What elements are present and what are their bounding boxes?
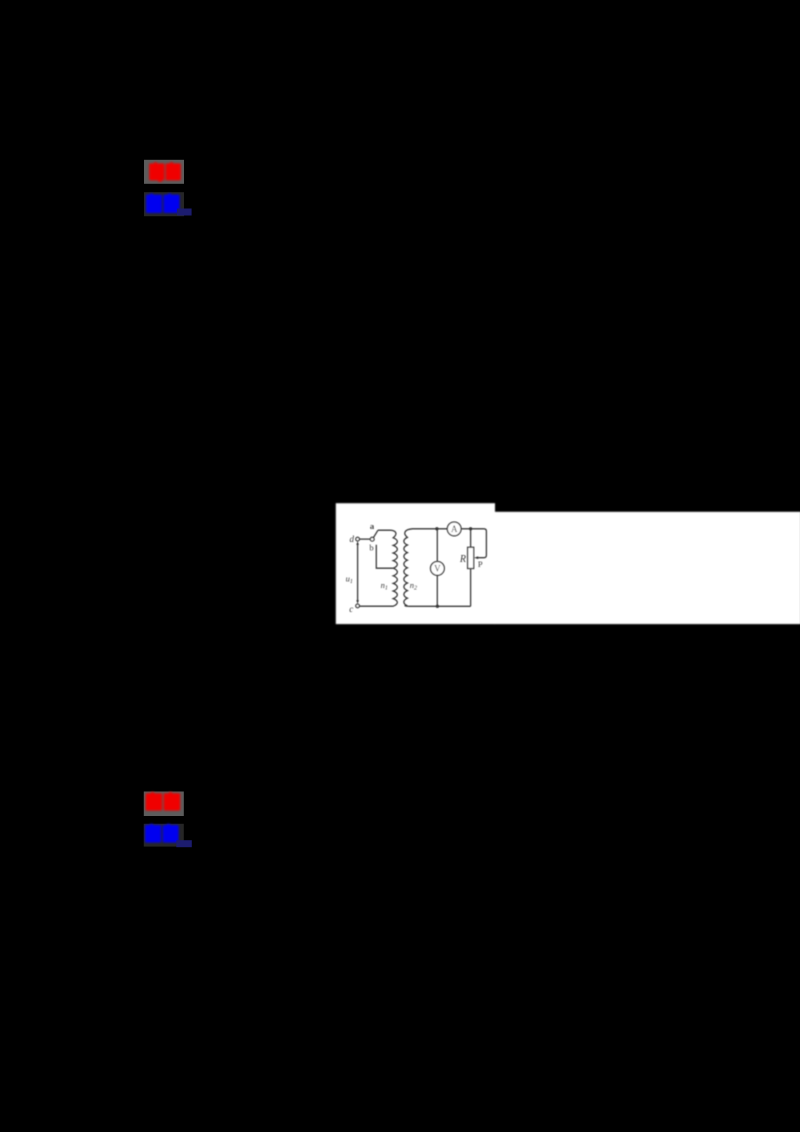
junction node right <box>469 527 472 530</box>
svg-text:P: P <box>478 559 483 569</box>
svg-text:d: d <box>350 534 355 544</box>
switch pivot <box>370 537 374 541</box>
voltmeter stem bottom <box>436 575 438 606</box>
secondary winding n2 <box>404 529 413 607</box>
u1 measure line <box>357 543 359 602</box>
secondary bottom wire <box>412 605 471 607</box>
white band <box>495 512 800 624</box>
wire d to pivot <box>360 538 371 540</box>
arrow up to d <box>356 541 359 545</box>
svg-text:c: c <box>349 604 353 614</box>
wire junction to R <box>470 529 472 548</box>
label pair 2: blue tag box <box>144 824 192 847</box>
label pair 1: red tag box <box>144 160 184 184</box>
navy chip 1 <box>177 209 192 216</box>
navy chip 2 <box>176 840 192 847</box>
junction node bottom <box>436 605 439 608</box>
primary winding n1 <box>359 530 397 606</box>
svg-text:V: V <box>434 564 441 574</box>
contact b stub and tap wire <box>376 545 393 569</box>
svg-text:b: b <box>369 543 373 553</box>
label pair 2: red tag box <box>144 792 184 817</box>
rheostat R body <box>468 547 474 568</box>
arrow down to c <box>356 600 359 604</box>
voltmeter stem top <box>436 529 438 562</box>
R bottom leg <box>470 569 472 607</box>
voltmeter V <box>431 562 445 576</box>
terminal c <box>356 604 360 608</box>
svg-text:A: A <box>451 524 458 534</box>
circuit schematic <box>346 521 487 614</box>
label pair 1: blue tag box <box>144 192 192 216</box>
secondary top wire <box>412 528 447 530</box>
junction node left <box>435 527 438 530</box>
svg-text:R: R <box>459 554 466 565</box>
slider arrowhead <box>474 556 478 559</box>
switch arm to contact a <box>373 530 378 537</box>
ammeter A <box>447 522 461 536</box>
P loop: corner down and to slider <box>476 529 486 558</box>
terminal d <box>356 537 360 541</box>
white figure panel <box>336 503 800 624</box>
wire A to corner <box>461 528 484 530</box>
